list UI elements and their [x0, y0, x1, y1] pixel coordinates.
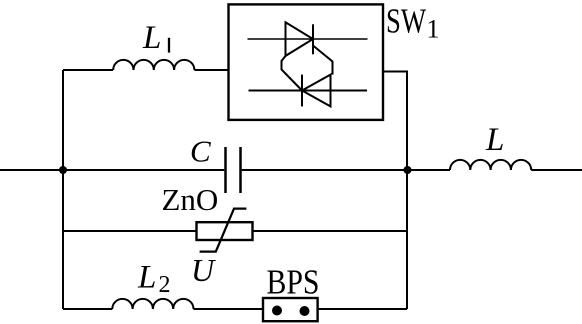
- inductor L1: [113, 60, 194, 70]
- wire top thyristor lead: [248, 38, 368, 40]
- svg-text:ZnO: ZnO: [162, 182, 219, 217]
- wire top branch to SW box: [194, 69, 228, 71]
- bypass switch BPS box: [263, 298, 318, 321]
- svg-text:1: 1: [427, 15, 440, 44]
- wire varistor branch right: [253, 230, 408, 232]
- wire bottom branch left: [63, 308, 112, 310]
- svg-text:SW: SW: [386, 2, 426, 41]
- svg-text:BPS: BPS: [267, 263, 320, 302]
- svg-text:L: L: [137, 260, 156, 296]
- svg-text:L: L: [142, 20, 161, 56]
- thyristor V2 triangle: [302, 75, 331, 107]
- thyristor V1 triangle: [286, 22, 314, 56]
- thyristor V1 cathode bar: [312, 24, 314, 54]
- switch box SW1: [229, 4, 384, 120]
- svg-text:L: L: [485, 122, 504, 158]
- wire main line left segment: [0, 169, 63, 171]
- wire capacitor to right node: [242, 169, 408, 171]
- wire bottom branch right: [318, 308, 407, 310]
- BPS contact dot left: [272, 306, 282, 316]
- wire anti-parallel link left: [282, 56, 303, 91]
- node right junction dot: [404, 166, 412, 174]
- thyristor V2 cathode bar: [301, 75, 303, 107]
- wire bottom thyristor lead: [249, 90, 368, 92]
- wire main line to capacitor: [63, 169, 224, 171]
- svg-text:2: 2: [159, 272, 171, 298]
- varistor ZnO body: [197, 222, 253, 240]
- inductor L: [450, 160, 531, 170]
- wire anti-parallel link right: [313, 46, 333, 75]
- wire right node to inductor L: [408, 169, 451, 171]
- wire from SW box to right bus: [383, 72, 407, 171]
- wire main line right segment: [531, 169, 582, 171]
- capacitor C left plate: [224, 147, 227, 193]
- wire top branch left: [63, 69, 113, 71]
- capacitor C right plate: [239, 147, 242, 193]
- BPS contact dot right: [300, 306, 310, 316]
- varistor slash: [200, 209, 247, 252]
- wire to BPS: [194, 308, 264, 310]
- svg-text:U: U: [191, 252, 216, 288]
- label L1 subscript 1: [168, 38, 170, 53]
- node left junction dot: [59, 166, 67, 174]
- wire left vertical bus: [62, 70, 64, 309]
- inductor L2: [112, 299, 193, 309]
- wire right vertical bus: [406, 170, 408, 309]
- wire varistor branch left: [63, 230, 197, 232]
- svg-text:C: C: [190, 134, 211, 169]
